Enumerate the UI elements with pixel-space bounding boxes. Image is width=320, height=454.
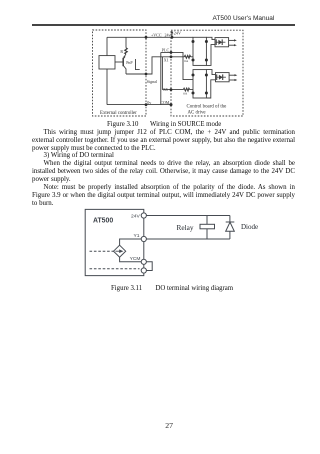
- opto U2 LED lead: [215, 39, 217, 45]
- diode D1 bottom lead: [229, 231, 231, 239]
- svg-text:+VCC: +VCC: [151, 33, 162, 38]
- dashed internal wire upper: [90, 250, 114, 252]
- dashed internal wire lower: [90, 268, 140, 270]
- opto U2 LED bar: [221, 39, 223, 45]
- wire: 0v-COM bottom: [146, 104, 171, 106]
- wire: 24V rail: [146, 215, 230, 217]
- svg-text:Y1: Y1: [134, 233, 140, 239]
- relay stem bottom: [206, 229, 208, 239]
- svg-text:COM: COM: [160, 100, 170, 105]
- diamond arrow: [115, 250, 120, 252]
- AT500 box top and left and bottom: [85, 209, 144, 275]
- node +VCC: [145, 36, 148, 39]
- wire: diamond to YCM: [120, 257, 142, 262]
- YCM shorting bracket: [146, 262, 152, 271]
- AT500 box right edge seg1: [143, 218, 145, 236]
- AT500 box right edge seg2: [143, 242, 145, 260]
- header rule: [32, 24, 295, 25]
- wire: Y1 branch to optocoupler: [120, 239, 142, 245]
- component box U1: [99, 56, 115, 69]
- opto U2 output arrow 1: [234, 39, 237, 41]
- opto U3 LED bar: [222, 74, 224, 80]
- header: AT500 User's Manual: [213, 15, 275, 22]
- AT500 box right edge seg3: [143, 264, 145, 268]
- svg-text:AC drive: AC drive: [188, 111, 206, 116]
- opto U2 LED lead 2: [222, 41, 225, 43]
- svg-text:Control board of the: Control board of the: [187, 105, 227, 110]
- external controller dashed box: [93, 30, 147, 116]
- opto U2 output arrow 2: [234, 44, 237, 46]
- 24V arrowhead: [171, 30, 174, 33]
- node PLC: [170, 51, 173, 54]
- wire: Signal to X1 riser: [146, 57, 193, 74]
- terminal Y1: [141, 236, 146, 241]
- body text: [32, 129, 295, 137]
- optocoupler U2: [215, 38, 229, 47]
- svg-text:24V: 24V: [174, 31, 181, 36]
- node B1 lower-right: [205, 59, 208, 62]
- bridge B1 rectifier: [193, 37, 206, 65]
- svg-text:R: R: [120, 49, 123, 54]
- node B2 lower-right: [205, 92, 208, 95]
- opto U3 output wire 1: [229, 74, 235, 76]
- page number: [165, 422, 173, 429]
- wire: B1 bottom rail to opto stub: [206, 45, 215, 66]
- opto U2 output wire 2: [229, 44, 235, 46]
- wire: ext loop bottom: [107, 104, 146, 106]
- svg-text:0v: 0v: [147, 100, 151, 105]
- svg-text:PnP: PnP: [126, 60, 133, 65]
- node 0v: [145, 103, 148, 106]
- svg-text:PLC: PLC: [162, 48, 170, 53]
- transistor Q1 collector: [123, 65, 126, 74]
- terminal YCM2: [141, 268, 146, 273]
- wire: resistor feed: [125, 37, 127, 48]
- AC drive control board dashed box: [171, 30, 243, 116]
- svg-text:24v: 24v: [165, 33, 171, 38]
- 24V arrow stem: [171, 32, 173, 37]
- svg-text:Diode: Diode: [241, 223, 258, 231]
- svg-text:External controller: External controller: [100, 111, 137, 116]
- node B1 upper-right: [205, 40, 208, 43]
- caption figure 3.10: [107, 121, 138, 128]
- resistor R2 zigzag: [183, 88, 189, 91]
- opto U3 LED lead 2: [223, 76, 226, 78]
- wire: ext loop top: [107, 36, 146, 38]
- opto U2 LED triangle: [218, 40, 222, 45]
- diode D1 cathode bar: [226, 221, 235, 223]
- caption figure 3.11: [111, 285, 142, 292]
- node B2 lower-left: [192, 92, 195, 95]
- node B2 upper-left: [192, 74, 195, 77]
- wire: PLC: [161, 52, 193, 79]
- node B1 lower-left: [192, 59, 195, 62]
- svg-text:24V: 24V: [131, 213, 140, 219]
- node Signal: [145, 73, 148, 76]
- node B2 upper-right: [205, 74, 208, 77]
- svg-text:6A: 6A: [184, 59, 189, 63]
- terminal 24V: [141, 213, 146, 218]
- relay coil K1: [200, 224, 215, 229]
- node X5: [170, 88, 173, 91]
- wire: 24v rail: [146, 36, 193, 38]
- svg-text:6A: 6A: [183, 92, 188, 96]
- resistor R1 (X1 input) white mask: [184, 55, 190, 58]
- transistor Q1 emitter arrow: [123, 56, 125, 58]
- diode D1 triangle: [226, 222, 235, 231]
- L mark: [136, 59, 140, 70]
- opto U3 LED triangle: [219, 75, 223, 80]
- svg-text:AT500: AT500: [93, 217, 113, 224]
- wire: X1-X5 link: [161, 57, 163, 90]
- svg-text:X1: X1: [164, 58, 169, 63]
- opto U3 output arrow 1: [235, 74, 238, 76]
- opto U3 LED lead: [216, 74, 218, 80]
- wire: ext loop left vertical lower: [106, 69, 108, 105]
- terminal YCM: [141, 259, 146, 264]
- wire: X5: [162, 89, 193, 91]
- wire: collector to Signal terminal: [126, 73, 146, 75]
- svg-text:X5: X5: [163, 87, 168, 92]
- wire: B2 top rail to opto stub: [206, 70, 215, 75]
- diode D1 top lead: [229, 216, 231, 223]
- relay stem top: [206, 216, 208, 225]
- optocoupler U3: [216, 73, 230, 82]
- wire: PLC-COM jumper: [160, 52, 162, 104]
- svg-text:YCM: YCM: [130, 256, 141, 262]
- resistor R1 zigzag: [184, 55, 190, 58]
- wire: Y1 rail: [146, 238, 230, 240]
- opto U3 output wire 2: [229, 79, 235, 81]
- wire: base lead: [115, 61, 123, 63]
- opto U2 output wire 1: [229, 39, 235, 41]
- wire: B2 bottom rail to opto stub: [206, 80, 215, 98]
- transistor Q1 emitter: [123, 54, 126, 59]
- resistor R: [125, 48, 127, 54]
- opto U3 output arrow 2: [235, 79, 238, 81]
- node COM: [170, 103, 173, 106]
- resistor R2 white mask: [183, 88, 189, 91]
- optocoupler diamond: [114, 245, 126, 257]
- node X1: [170, 55, 173, 58]
- svg-text:Signal: Signal: [147, 79, 158, 84]
- transistor Q1 base bar: [122, 58, 124, 66]
- node B1 upper-left: [192, 40, 195, 43]
- bridge B2 rectifier: [193, 70, 206, 98]
- node 24v junction: [171, 36, 174, 39]
- wire: ext loop left vertical upper: [106, 37, 108, 55]
- wire: B1 top rail to opto stub: [206, 37, 215, 39]
- svg-text:Relay: Relay: [177, 223, 194, 232]
